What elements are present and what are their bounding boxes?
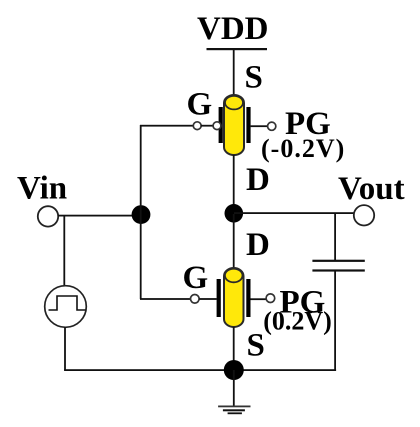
M1 PG contact circle	[268, 122, 276, 130]
wire output to load capacitor	[334, 213, 336, 261]
M1 polarity gate electrode (right bar)	[246, 107, 250, 143]
VDD supply bar	[207, 48, 268, 50]
M2 control gate electrode (left bar)	[217, 279, 221, 317]
svg-text:G: G	[183, 260, 209, 296]
wire M2 gate circle to gate bar	[199, 298, 217, 300]
wire output node to M2 drain	[233, 214, 235, 268]
svg-text:D: D	[246, 227, 270, 263]
svg-text:S: S	[247, 328, 265, 364]
wire VDD bar to M1 source	[233, 50, 235, 96]
svg-text:VDD: VDD	[197, 11, 269, 47]
input junction dot	[132, 205, 151, 224]
svg-text:D: D	[246, 162, 270, 198]
M1 gate contact circle (inner)	[213, 122, 221, 130]
wire Vin branch to pulse source	[63, 216, 65, 287]
svg-text:(-0.2V): (-0.2V)	[261, 134, 345, 163]
wire pulse source to ground rail	[64, 327, 66, 370]
load capacitor CL	[312, 260, 364, 272]
svg-text:Vout: Vout	[338, 171, 405, 207]
ground node junction dot	[224, 360, 244, 380]
Vin terminal circle	[38, 206, 58, 226]
ground (earth) symbol	[218, 406, 250, 415]
wire M2 polarity gate to PG contact	[251, 298, 267, 300]
transistor M2 (bottom ambipolar FET, yellow nanotube body)	[224, 268, 244, 327]
svg-text:Vin: Vin	[17, 170, 67, 206]
ground rail (bottom wire)	[64, 369, 336, 371]
wire M1 drain to output node	[233, 155, 235, 215]
wire between M1 gate circles	[201, 125, 214, 127]
transistor M1 (top ambipolar FET, yellow nanotube body)	[224, 95, 244, 155]
pulse voltage source V1	[45, 286, 87, 328]
wire input rail to M2 gate	[140, 298, 191, 300]
wire ground node to earth symbol	[233, 370, 235, 406]
wire M1 polarity gate to PG contact	[251, 125, 268, 127]
wire capacitor to ground rail	[334, 272, 336, 371]
input gate rail (vertical wire)	[140, 125, 142, 299]
Vout terminal circle	[354, 205, 374, 225]
wire M2 source to ground node	[233, 327, 235, 370]
wire left rail to M1 gate	[140, 125, 193, 127]
M1 control gate electrode (left bar)	[219, 107, 223, 143]
M1 gate contact circle (outer)	[193, 122, 201, 130]
wire Vin terminal to input junction	[58, 215, 132, 217]
M2 gate contact circle	[191, 295, 200, 304]
M2 PG contact circle	[266, 294, 275, 303]
wire output node to Vout terminal	[234, 212, 354, 214]
M2 polarity gate electrode (right bar)	[246, 279, 250, 317]
svg-text:S: S	[245, 60, 263, 96]
output node junction dot	[225, 204, 244, 223]
svg-text:G: G	[187, 87, 213, 123]
svg-text:(0.2V): (0.2V)	[263, 307, 332, 336]
